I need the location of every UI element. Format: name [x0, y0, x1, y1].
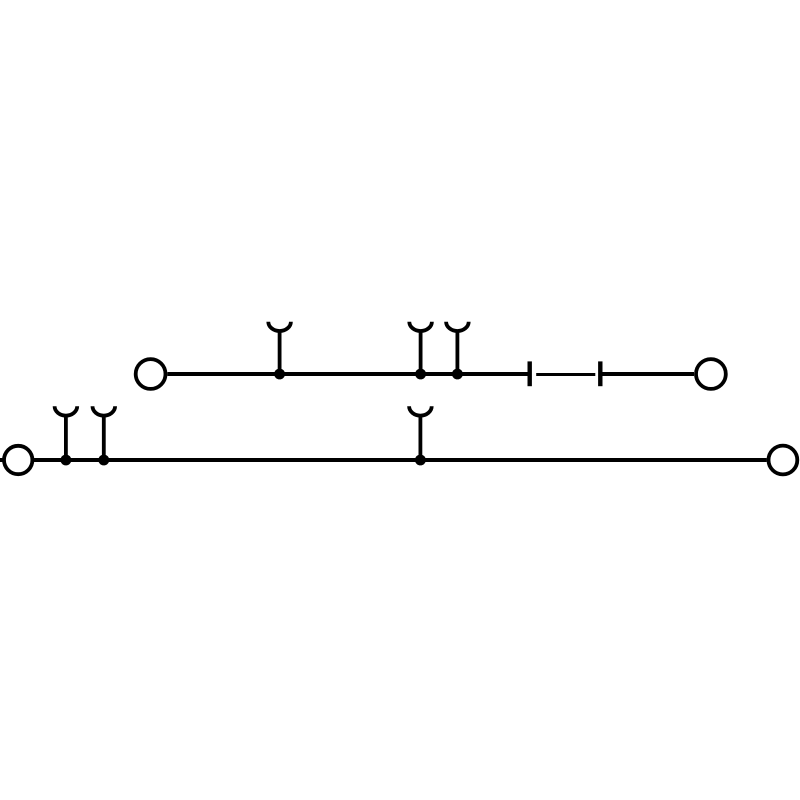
terminal circle P2 (upper rail, right) [696, 359, 726, 389]
junction dot J2 [415, 369, 426, 380]
disconnect blade left contact bar [528, 361, 532, 386]
junction dot J3 [452, 369, 463, 380]
tap fork T6 (lower rail, x=420) [409, 406, 432, 460]
tap fork T1 (upper rail, x=280) [268, 322, 291, 374]
junction dot J5 [98, 455, 109, 466]
tap fork T2 (upper rail, x=420) [409, 322, 432, 374]
junction dot J6 [415, 455, 426, 466]
wire upper rail right segment [600, 372, 694, 376]
wire upper rail left segment [167, 372, 529, 376]
disconnect blade link [536, 373, 595, 376]
terminal circle P3 (lower rail, left) [4, 446, 32, 474]
tap fork T5 (lower rail, x=104) [93, 406, 116, 460]
terminal circle P1 (upper rail, left) [136, 359, 166, 389]
wire lower rail left stub [0, 458, 4, 462]
tap fork T4 (lower rail, x=66) [55, 406, 78, 460]
junction dot J1 [274, 369, 285, 380]
junction dot J4 [61, 455, 72, 466]
disconnect blade right contact bar [598, 361, 602, 386]
tap fork T3 (upper rail, x=457) [446, 322, 469, 374]
wire lower rail main segment [32, 458, 766, 462]
terminal circle P4 (lower rail, right) [769, 446, 798, 475]
